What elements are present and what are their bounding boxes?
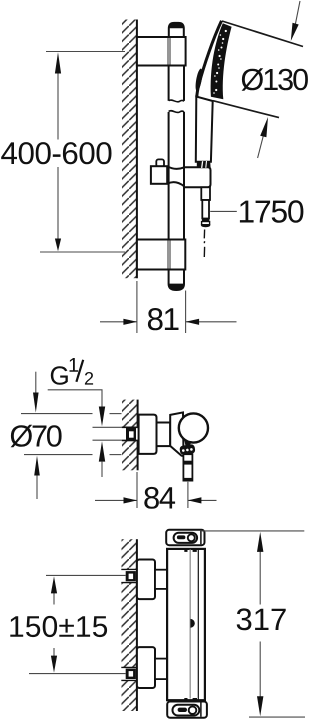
lower union neck <box>155 659 167 680</box>
upper pipe channel <box>121 570 137 582</box>
lower pipe in wall (dark) <box>126 669 136 679</box>
pipe in wall (dark) <box>126 428 136 442</box>
wall face line (middle) <box>137 400 139 427</box>
tube dark band <box>183 461 192 465</box>
label Ø70 <box>11 425 62 448</box>
label G 1/2 <box>51 366 68 385</box>
arrow down (400-600) <box>55 239 61 252</box>
G1/2 fat down arrow <box>99 407 105 427</box>
dimension 317 upper stem <box>259 552 261 605</box>
valve body ring <box>157 423 171 447</box>
bottom handle pill <box>173 705 200 716</box>
glider clamp tab <box>156 159 164 166</box>
dimension 317 lower stem <box>259 642 261 697</box>
glider left block <box>151 166 167 184</box>
label 1750 leader line <box>210 210 237 212</box>
top handle pill <box>174 533 198 543</box>
Ø70 upper stem <box>35 372 37 394</box>
spray face dark band <box>211 23 232 99</box>
glider top edge <box>167 166 184 169</box>
arrow (Ø130 lower) <box>260 117 268 137</box>
body front plate edge line <box>197 549 199 700</box>
wall (bottom section) hatching <box>122 539 137 711</box>
cartridge nubs bottom <box>184 698 187 700</box>
handle tube below clamp <box>183 454 192 480</box>
label 81 <box>148 308 179 330</box>
dimension 400-600 line upper part <box>57 73 59 140</box>
pipe channel through wall <box>122 427 139 440</box>
upper S-union escutcheon <box>137 560 155 600</box>
sphere-stem dark wedge <box>185 441 192 446</box>
wall face line (top section) <box>136 20 138 279</box>
face outline mid shading <box>194 68 203 92</box>
dimension 84 left extension line <box>136 472 138 508</box>
body gray edge line <box>189 550 191 699</box>
hose nut below holder <box>201 187 210 200</box>
holder clamp with dots <box>179 444 195 455</box>
rail bottom segment with end cap <box>169 270 184 291</box>
dimension 150±15 upper stem <box>53 593 55 605</box>
rail seen through top bracket (gray stripe) <box>167 38 171 65</box>
rail end cap dark bottom <box>169 284 184 290</box>
rail seen through bottom bracket (gray stripe) <box>167 241 171 269</box>
thermostat body <box>167 549 205 700</box>
pipe bottom extension line <box>93 439 124 441</box>
Ø70 lower stem <box>36 476 38 500</box>
G1/2 lower stem <box>101 462 103 477</box>
rail break squiggle bottom <box>169 111 184 113</box>
G1/2 fat up arrow <box>99 441 105 461</box>
shower head face outline <box>197 21 222 98</box>
hose end dark tip <box>201 224 210 227</box>
hose center line (dash-dot) <box>203 230 205 239</box>
bonnet cone <box>170 412 183 456</box>
dimension Ø130 line upper stem <box>295 1 300 25</box>
label 84 <box>144 487 175 509</box>
dimension 150±15 bottom extension line <box>29 673 126 675</box>
dimension 150±15 lower stem <box>53 648 55 657</box>
wall face line (bottom) <box>136 539 138 569</box>
dimension 84 left arrow line <box>95 499 137 501</box>
dimension 84 right extension line <box>187 482 189 508</box>
holder sphere <box>179 413 208 442</box>
top cap (temperature handle) <box>166 530 204 545</box>
dimension 81 left arrow line <box>100 321 137 323</box>
arrow up (400-600) <box>55 52 61 73</box>
hose end piece <box>202 200 209 219</box>
hand shower handle <box>196 97 213 162</box>
dimension 400-600 top extension line <box>46 51 125 53</box>
rail break squiggle top <box>169 100 184 102</box>
dimension 317 top extension line <box>201 530 304 532</box>
rail lower segment <box>168 112 170 240</box>
upper pipe in wall (dark) <box>126 571 136 581</box>
dimension 400-600 line lower part <box>57 167 59 240</box>
rail top cap <box>169 23 184 38</box>
arrow (Ø130 upper) <box>291 23 299 41</box>
wall (middle section) hatching <box>122 400 138 471</box>
Ø70 down arrow <box>33 393 39 413</box>
dimension 81 left extension line (wall face) <box>136 281 138 333</box>
lower S-union escutcheon <box>137 647 155 688</box>
dimension Ø130 line lower stem <box>258 136 264 159</box>
escutcheon flange (side view) <box>139 415 157 454</box>
label 1750 <box>240 200 304 223</box>
bottom wall bracket <box>137 240 185 270</box>
dimension 400-600 bottom extension line <box>40 251 125 253</box>
nozzle speckles <box>213 30 227 94</box>
glider bottom arc over rail <box>167 182 184 186</box>
cartridge nubs top <box>184 550 187 552</box>
upper union neck <box>155 570 167 589</box>
Ø70 up arrow <box>34 456 40 476</box>
Ø70 top extension line <box>21 413 93 415</box>
pipe top extension line <box>93 426 124 428</box>
lower pipe channel <box>121 668 137 680</box>
bottom cap (volume handle) <box>167 702 207 718</box>
safestop button <box>190 619 194 628</box>
dimension 84 right arrow line <box>188 499 217 501</box>
G1/2 underline leader <box>48 390 102 407</box>
dimension 317 bottom extension line <box>249 716 305 718</box>
label 150±15 <box>10 616 107 637</box>
shower head top edge / extension line <box>222 21 303 47</box>
shower head bottom edge / extension line <box>213 101 279 118</box>
rail upper segment <box>168 66 170 101</box>
dimension 150±15 top extension line <box>46 574 126 576</box>
dimension 81 right extension line <box>185 291 187 334</box>
glider right block (holder) <box>184 167 211 187</box>
label 317 <box>237 608 286 630</box>
label Ø130 <box>242 68 308 91</box>
dimension 81 right arrow line <box>186 321 237 323</box>
Ø70 bottom extension line <box>24 454 93 456</box>
top wall bracket <box>137 37 186 66</box>
label 400-600 <box>1 142 111 164</box>
tube dark bottom <box>183 478 192 481</box>
wall (top section) hatching <box>122 20 137 279</box>
handle cone above grip <box>197 161 211 168</box>
